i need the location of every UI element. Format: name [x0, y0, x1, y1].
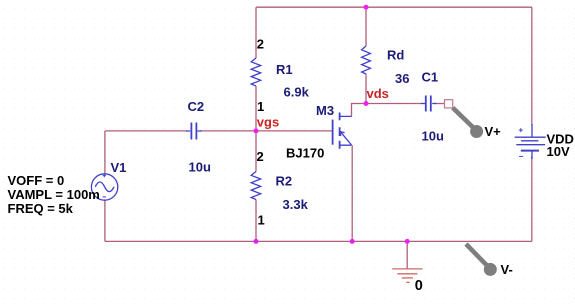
wire left branch lower: [104, 200, 106, 241]
wire C2 to vgs node: [200, 130, 256, 132]
svg-text:vgs: vgs: [257, 114, 279, 129]
wire right rail lower: [531, 156, 533, 241]
wire input to C2: [105, 130, 187, 132]
ground 0: [392, 269, 422, 282]
resistor Rd: [362, 46, 371, 74]
wire C1 to terminal: [434, 103, 445, 105]
svg-text:FREQ = 5k: FREQ = 5k: [8, 201, 74, 216]
wire R2 branch bottom: [255, 200, 257, 242]
wire gate: [256, 130, 333, 132]
wire source to bottom rail: [351, 145, 353, 241]
svg-text:1: 1: [258, 213, 265, 228]
svg-text:2: 2: [257, 149, 264, 164]
probe V-: [466, 244, 497, 276]
svg-text:36: 36: [395, 71, 409, 86]
wire vds node to C1: [366, 103, 422, 105]
svg-text:R1: R1: [276, 62, 293, 77]
svg-text:V1: V1: [111, 160, 127, 175]
svg-text:VAMPL = 100m: VAMPL = 100m: [8, 187, 100, 202]
svg-text:Rd: Rd: [387, 48, 404, 63]
svg-text:1: 1: [257, 99, 264, 114]
svg-text:10V: 10V: [547, 144, 570, 159]
svg-text:C2: C2: [188, 99, 205, 114]
svg-text:10u: 10u: [189, 159, 211, 174]
svg-text:R2: R2: [276, 174, 293, 189]
wire drain to vds node: [352, 104, 367, 117]
svg-text:6.9k: 6.9k: [284, 85, 310, 100]
svg-text:V+: V+: [485, 124, 502, 139]
svg-text:VOFF = 0: VOFF = 0: [8, 173, 65, 188]
wire Rd branch bottom: [365, 74, 367, 104]
probe V+: [453, 108, 483, 138]
wire bottom rail: [105, 240, 532, 242]
svg-text:C1: C1: [422, 70, 439, 85]
svg-text:vds: vds: [367, 86, 389, 101]
junction bottom rail / R2: [254, 239, 259, 244]
junction vds node: [364, 101, 369, 106]
wire top rail: [256, 6, 532, 8]
wire R1 branch top: [255, 7, 257, 58]
resistor R1: [251, 58, 261, 86]
wire R2 branch top: [255, 131, 257, 172]
wire right rail upper: [531, 7, 533, 125]
capacitor C1: [421, 96, 436, 112]
svg-text:0: 0: [415, 278, 423, 294]
output terminal square: [445, 100, 453, 108]
svg-text:10u: 10u: [422, 129, 444, 144]
wire R1 branch bottom: [255, 86, 257, 131]
junction vgs node: [254, 128, 259, 133]
wire left branch upper: [104, 131, 106, 175]
junction bottom rail / ground: [405, 239, 410, 244]
svg-text:BJ170: BJ170: [286, 145, 324, 160]
voltage source V1: [91, 174, 117, 200]
junction bottom rail / source: [350, 239, 355, 244]
svg-text:3.3k: 3.3k: [283, 197, 309, 212]
svg-text:2: 2: [257, 37, 264, 52]
dc source VDD: [515, 124, 546, 159]
wire Rd branch top: [365, 7, 367, 46]
wire ground stem: [406, 241, 408, 268]
transistor M3 (NMOS): [333, 113, 352, 149]
svg-text:M3: M3: [316, 103, 334, 118]
capacitor C2: [186, 123, 202, 140]
resistor R2: [251, 172, 261, 200]
junction at top rail / Rd: [364, 5, 369, 10]
svg-text:V-: V-: [501, 262, 513, 277]
